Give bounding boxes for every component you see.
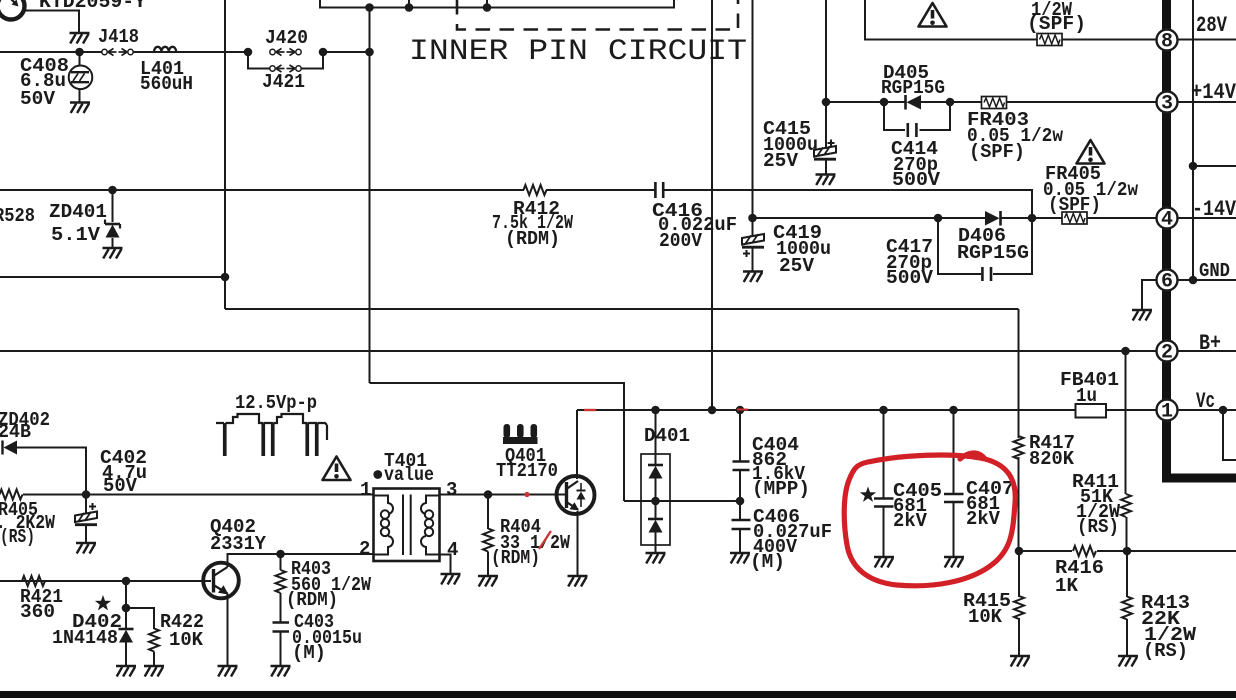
svg-text:RGP15G: RGP15G xyxy=(957,242,1029,264)
wire B+ rail y=351 xyxy=(0,350,1157,352)
wire Q402 collector xyxy=(227,554,229,567)
svg-text:560uH: 560uH xyxy=(140,73,193,95)
svg-text:4: 4 xyxy=(447,539,458,561)
dashed box INNER PIN CIRCUIT xyxy=(457,0,738,30)
resistor FR405 xyxy=(1062,212,1087,224)
jumper J421 xyxy=(270,65,301,72)
svg-text:INNER PIN CIRCUIT: INNER PIN CIRCUIT xyxy=(409,35,747,69)
star D402 xyxy=(95,595,111,610)
stub up at x=487 xyxy=(486,0,488,8)
svg-text:J421: J421 xyxy=(262,71,305,93)
wire D402/R422 branch xyxy=(126,581,154,629)
svg-text:1K: 1K xyxy=(1055,575,1079,597)
wire pin6 to ground xyxy=(1142,280,1157,310)
svg-text:Vc: Vc xyxy=(1196,389,1215,414)
wire emitter KTD2059 to ground elbow xyxy=(24,11,79,34)
resistor R411 xyxy=(1121,494,1131,517)
capacitor C415 assembly xyxy=(814,102,836,174)
wire D401 bottom rail y=501 xyxy=(624,500,740,502)
node dot (1032,218) xyxy=(1028,214,1037,223)
resistor R412 xyxy=(524,185,547,195)
warning triangle FR405 xyxy=(1077,140,1105,164)
resistor FR403 xyxy=(982,97,1007,109)
node dot (79.5,52) xyxy=(75,48,84,57)
wire collector rail y=554 xyxy=(227,553,374,555)
node dot (938,218) xyxy=(934,214,943,223)
node dot (280.5,554) xyxy=(276,550,285,559)
ground (Q402 emitter) xyxy=(218,666,238,677)
wire T401 pin3 to Q401 base xyxy=(440,494,566,496)
ground (D401) xyxy=(646,553,666,564)
ground (R404) xyxy=(478,576,498,587)
ground (C403) xyxy=(271,666,291,677)
node dot (488,494.5) xyxy=(484,490,493,499)
ground (C406) xyxy=(730,553,750,564)
ground (R413) xyxy=(1118,656,1138,667)
ground (Q401 emitter) xyxy=(568,576,588,587)
svg-text:1N4148: 1N4148 xyxy=(52,627,118,649)
ground (pin 6) xyxy=(1132,310,1152,321)
svg-text:(RS): (RS) xyxy=(1077,516,1119,538)
svg-text:D401: D401 xyxy=(644,425,690,447)
svg-text:24B: 24B xyxy=(0,421,31,443)
capacitor C404 xyxy=(733,410,750,501)
wire base rail y=581 xyxy=(0,580,211,582)
capacitor C403 xyxy=(273,623,290,667)
node dot (740,410) xyxy=(736,406,745,415)
svg-text:GND: GND xyxy=(1199,260,1230,282)
wire y=309 from x=225 to x=1018 xyxy=(225,308,1019,310)
node dot (248,52) xyxy=(244,48,253,57)
svg-text:2kV: 2kV xyxy=(893,510,928,532)
warning triangle top xyxy=(919,3,947,27)
node dot (487,7.5) xyxy=(483,3,492,12)
T401 secondary winding xyxy=(421,496,440,555)
T401 primary winding xyxy=(374,496,394,555)
svg-text:(M): (M) xyxy=(750,551,785,573)
transistor KTD2059-Y xyxy=(0,0,25,20)
node dot (1223,410) xyxy=(1219,406,1228,415)
ground (C408) xyxy=(70,103,90,114)
heatsink Q401 xyxy=(503,424,538,444)
node dot (369,52) xyxy=(365,48,374,57)
capacitor C406 xyxy=(732,501,751,553)
svg-text:J418: J418 xyxy=(98,26,139,48)
diode D401 top xyxy=(648,410,663,519)
resistor R416 xyxy=(1073,546,1096,556)
node dot (884,102) xyxy=(880,98,889,107)
svg-text:2kV: 2kV xyxy=(966,508,1001,530)
vertical wire x=752.5 xyxy=(752,0,754,218)
svg-text:3: 3 xyxy=(1161,92,1173,115)
svg-text:25V: 25V xyxy=(763,150,799,172)
ground (ZD401) xyxy=(103,248,123,259)
node dot (826,102) xyxy=(822,98,831,107)
pin 8 xyxy=(1157,30,1178,54)
ground (R415) xyxy=(1010,656,1030,667)
svg-text:(M): (M) xyxy=(292,642,326,664)
node dot (323,52) xyxy=(319,48,328,57)
pin 3 xyxy=(1157,92,1178,116)
jumper J418 xyxy=(102,48,133,55)
red mark on wire near C404 xyxy=(737,409,748,411)
ground (KTD2059 emitter) xyxy=(70,33,90,44)
svg-text:(SPF): (SPF) xyxy=(969,141,1025,163)
connector bus thick bar xyxy=(1162,0,1171,478)
svg-text:2331Y: 2331Y xyxy=(210,533,267,555)
svg-text:2: 2 xyxy=(1161,341,1173,364)
capacitor C405 xyxy=(874,410,894,557)
node dot (409,7.5) xyxy=(405,3,414,12)
bottom border bar xyxy=(0,691,1236,698)
plus sign C415 xyxy=(828,140,835,147)
node dot (225,277) xyxy=(221,273,230,282)
capacitor C416 xyxy=(655,182,663,198)
zener ZD401 xyxy=(105,190,120,248)
node dot (953.5,410) xyxy=(949,406,958,415)
wire T401 pin1 rail y=494.5 xyxy=(0,494,373,496)
resistor R413 chain xyxy=(1126,551,1128,656)
inductor L401 xyxy=(154,47,176,52)
svg-text:RGP15G: RGP15G xyxy=(881,77,945,99)
svg-text:50V: 50V xyxy=(20,88,56,110)
capacitor C414 plates xyxy=(908,123,917,137)
resistor R422 xyxy=(149,629,159,667)
wire main rail y=52 xyxy=(0,51,370,53)
red dot on base wire xyxy=(524,492,529,497)
wire top rail y=7.5 xyxy=(320,0,674,8)
svg-text:(RS): (RS) xyxy=(0,526,35,548)
vertical wire x=369.5 xyxy=(369,8,371,384)
right edge wires xyxy=(1178,0,1236,460)
svg-text:25V: 25V xyxy=(779,255,815,277)
vertical wire x=712 xyxy=(711,0,713,410)
stub up at x=409 xyxy=(408,0,410,8)
resistor FR402 xyxy=(1037,34,1062,46)
resistor R421 xyxy=(22,576,45,586)
svg-text:J420: J420 xyxy=(265,27,308,49)
diode D406 xyxy=(985,211,1001,226)
capacitor C402 xyxy=(75,495,97,544)
capacitor C414 branch xyxy=(884,102,950,130)
diode D405 xyxy=(906,95,922,110)
wire R416 rail y=551 xyxy=(1019,550,1236,552)
resistor R415 xyxy=(1014,596,1024,619)
node dot (752.5,218) xyxy=(748,214,757,223)
red annotation circle xyxy=(844,453,1015,586)
svg-text:value: value xyxy=(384,464,434,486)
svg-text:10K: 10K xyxy=(968,606,1003,628)
svg-text:TT2170: TT2170 xyxy=(496,460,558,482)
resistor R411 chain vertical x=1126 xyxy=(1126,351,1127,551)
svg-text:5.1V: 5.1V xyxy=(51,224,101,246)
svg-text:6: 6 xyxy=(1161,270,1173,293)
pin 1 xyxy=(1157,400,1178,424)
svg-text:(SPF): (SPF) xyxy=(1027,13,1086,35)
plus sign C402 xyxy=(89,503,96,510)
svg-text:8: 8 xyxy=(1161,30,1173,53)
wire T401 pin4 to ground xyxy=(440,555,451,575)
node dot (126,581) xyxy=(122,577,131,586)
node dot (655.5,410) xyxy=(651,406,660,415)
svg-text:820K: 820K xyxy=(1029,448,1075,470)
resistor R404 xyxy=(483,495,493,577)
node dot (712,410) xyxy=(708,406,717,415)
connector bus elbow to right xyxy=(1162,474,1236,483)
svg-text:3: 3 xyxy=(446,479,457,501)
jumper J420 xyxy=(270,48,301,55)
node dot (1019,551) xyxy=(1015,547,1024,556)
node dot (1193,166) xyxy=(1189,162,1198,171)
node dot (740,501) xyxy=(736,497,745,506)
warning triangle T401 xyxy=(323,457,351,481)
svg-text:28V: 28V xyxy=(1196,13,1228,38)
plus sign C419 xyxy=(743,250,750,257)
star C405 xyxy=(860,487,876,502)
node dot (369,7.5) xyxy=(365,3,374,12)
capacitor C417 branch xyxy=(938,218,1032,274)
wire -14V rail y=218 xyxy=(753,217,1157,219)
T401 core xyxy=(403,495,411,556)
wire 28V to pin 8 xyxy=(1062,39,1157,41)
vertical wire x=225 xyxy=(224,0,226,309)
svg-text:1: 1 xyxy=(1161,400,1173,423)
wire 28V feed elbow x=865 xyxy=(865,0,1037,40)
ground (C415) xyxy=(816,175,836,186)
capacitor C407 xyxy=(944,410,964,557)
capacitor C417 plates xyxy=(982,267,991,281)
pin 2 xyxy=(1157,341,1178,365)
svg-text:(RDM): (RDM) xyxy=(286,589,338,611)
wire Q401 emitter xyxy=(577,511,579,576)
wire elbow (370,383)-(624,383)-(624,501) xyxy=(370,383,625,501)
svg-text:(RDM): (RDM) xyxy=(505,228,560,250)
svg-text:360: 360 xyxy=(20,601,55,623)
diode D402 xyxy=(119,629,134,666)
svg-text:10K: 10K xyxy=(169,629,204,651)
svg-text:+14V: +14V xyxy=(1191,80,1236,105)
node dot (655.5,501) xyxy=(651,497,660,506)
diode bridge D401 box xyxy=(641,454,670,545)
capacitor C408 xyxy=(69,52,93,102)
node dot (1127,551) xyxy=(1123,547,1132,556)
capacitor C419 assembly xyxy=(742,218,764,271)
resistor R403 xyxy=(276,554,286,622)
wire Vc rail y=410 xyxy=(577,409,1157,411)
svg-text:B+: B+ xyxy=(1199,331,1221,356)
resistor R413 xyxy=(1122,597,1132,620)
wire Q402 emitter xyxy=(227,594,229,667)
label value with dot xyxy=(373,464,434,486)
ground (D402) xyxy=(116,666,136,677)
svg-text:200V: 200V xyxy=(659,230,703,252)
ground (C402) xyxy=(76,543,96,554)
ground (C419) xyxy=(743,272,763,283)
svg-text:500V: 500V xyxy=(892,169,941,191)
svg-text:R528: R528 xyxy=(0,205,35,227)
svg-text:1u: 1u xyxy=(1076,385,1097,407)
svg-text:(RDM): (RDM) xyxy=(491,547,540,569)
ground (C407) xyxy=(944,557,964,568)
svg-text:500V: 500V xyxy=(886,267,934,289)
pin 6 xyxy=(1157,270,1178,294)
ground (T401 pin4) xyxy=(441,574,461,585)
svg-text:(MPP): (MPP) xyxy=(752,478,810,500)
waveform 12.5Vp-p xyxy=(216,414,327,456)
resistor R417 xyxy=(1014,436,1024,459)
node dot (1125.5,351) xyxy=(1121,347,1130,356)
pin 4 xyxy=(1157,208,1178,232)
ground (R422) xyxy=(144,666,164,677)
node dot (883.5,410) xyxy=(879,406,888,415)
vertical wire x=826 xyxy=(825,0,827,102)
ground (C405) xyxy=(874,557,894,568)
red mark on wire y=410 xyxy=(584,409,596,411)
svg-text:4: 4 xyxy=(1161,208,1173,231)
wire +5V rail y=190 xyxy=(0,190,1032,218)
red slash on R404 label xyxy=(539,531,551,549)
node dot (126,608) xyxy=(122,604,131,613)
svg-text:2: 2 xyxy=(359,538,370,560)
resistor R405 xyxy=(0,490,23,500)
transistor Q401 xyxy=(557,476,595,514)
svg-text:ZD401: ZD401 xyxy=(49,201,107,223)
resistor R417 chain vertical x=1018.5 xyxy=(1018,309,1020,551)
node dot (1193,280) xyxy=(1189,276,1198,285)
svg-text:1: 1 xyxy=(360,479,371,501)
wire y=277 xyxy=(0,276,225,278)
svg-text:50V: 50V xyxy=(103,475,138,497)
svg-text:(RS): (RS) xyxy=(1143,640,1188,662)
wire Q401 collector xyxy=(576,410,578,479)
svg-text:12.5Vp-p: 12.5Vp-p xyxy=(235,392,317,414)
ferrite bead FB401 xyxy=(1076,404,1107,418)
transformer T401 box xyxy=(374,489,440,562)
node dot (86,494.5) xyxy=(82,490,91,499)
transistor Q402 xyxy=(203,563,239,599)
diode D401 bottom xyxy=(648,519,663,553)
zener ZD402 xyxy=(3,441,87,496)
node dot (950,102) xyxy=(946,98,955,107)
wire +14V rail y=102 xyxy=(826,101,1157,103)
wire J421 branch xyxy=(248,52,323,69)
node dot ZD401 tap xyxy=(108,186,117,195)
svg-text:-14V: -14V xyxy=(1192,197,1236,222)
resistor R415 chain xyxy=(1018,551,1020,656)
